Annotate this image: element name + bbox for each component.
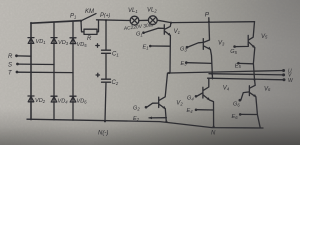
svg-text:VD3: VD3 [58,40,69,46]
svg-text:V6: V6 [264,86,271,92]
svg-text:C1: C1 [112,52,119,58]
svg-text:VL1: VL1 [128,8,138,14]
svg-text:V3: V3 [218,41,225,47]
svg-text:G5: G5 [230,49,237,55]
svg-text:N(-): N(-) [98,131,108,137]
svg-text:V4: V4 [223,86,230,92]
svg-text:E1: E1 [143,45,149,51]
svg-text:VD6: VD6 [77,99,88,105]
svg-text:G1: G1 [136,32,143,38]
svg-text:E4: E4 [187,108,194,114]
svg-text:VL2: VL2 [147,8,157,14]
svg-text:P(+): P(+) [100,13,111,19]
svg-text:G2: G2 [133,106,140,112]
svg-text:R: R [8,54,13,60]
svg-text:R: R [87,36,92,42]
svg-text:V1: V1 [174,29,180,35]
svg-text:VD1: VD1 [36,39,46,45]
svg-text:E2: E2 [133,116,140,122]
svg-text:VD4: VD4 [58,99,69,105]
svg-text:KM: KM [85,9,94,15]
svg-text:VD2: VD2 [35,98,46,104]
svg-text:G4: G4 [187,96,194,102]
svg-text:E6: E6 [232,114,239,120]
svg-text:VD5: VD5 [77,42,88,48]
svg-text:G6: G6 [233,102,240,108]
svg-text:C2: C2 [112,80,119,86]
svg-text:N: N [211,131,216,137]
svg-text:V5: V5 [261,34,268,40]
svg-text:P1: P1 [70,14,76,20]
svg-text:S: S [8,63,12,69]
svg-text:V2: V2 [176,101,183,107]
